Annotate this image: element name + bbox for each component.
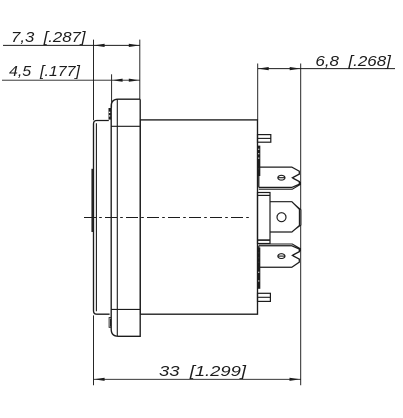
dim 33 arrows xyxy=(94,378,301,381)
extension line tab tip xyxy=(300,64,302,386)
bezel chamfer line xyxy=(95,123,97,311)
terminal tab top xyxy=(259,167,300,189)
svg-text:7,3 [.287]: 7,3 [.287] xyxy=(11,30,87,46)
flange front edge line xyxy=(116,99,118,336)
rear rib bottom xyxy=(258,293,271,301)
dim 7.3 line xyxy=(3,44,140,46)
latch bottom xyxy=(109,318,111,328)
centerline xyxy=(84,217,249,219)
dim 6.8 line xyxy=(258,68,395,70)
flange outline xyxy=(111,99,140,336)
terminal hole bottom xyxy=(278,254,285,259)
svg-text:6,8 [.268]: 6,8 [.268] xyxy=(315,54,392,70)
terminal tab bottom xyxy=(259,244,300,267)
dim 4.5 line xyxy=(2,79,140,81)
bezel outline xyxy=(94,121,110,315)
extension line flange front xyxy=(111,74,113,107)
latch top xyxy=(109,108,111,120)
dim 33 line xyxy=(94,378,301,380)
dim 7.3 arrows xyxy=(94,44,140,47)
tab base serration top xyxy=(257,146,260,176)
flange lower intersection line xyxy=(111,308,140,310)
flange upper intersection line xyxy=(111,125,140,127)
terminal hole middle xyxy=(277,213,286,222)
terminal tab middle xyxy=(270,202,301,232)
svg-text:4,5 [.177]: 4,5 [.177] xyxy=(9,64,81,80)
tab base serration bottom xyxy=(257,248,260,289)
extension line flange rear xyxy=(139,40,141,99)
extension line body rear xyxy=(257,64,259,120)
svg-text:33 [1.299]: 33 [1.299] xyxy=(159,364,247,380)
terminal pocket middle xyxy=(258,193,271,244)
extension line front face xyxy=(93,40,95,386)
bezel front rim xyxy=(91,169,93,232)
terminal hole top xyxy=(278,175,285,180)
rear rib top xyxy=(258,135,271,143)
dim 6.8 arrows xyxy=(258,67,301,70)
body outline xyxy=(140,120,257,314)
dim 4.5 arrows xyxy=(112,79,140,82)
